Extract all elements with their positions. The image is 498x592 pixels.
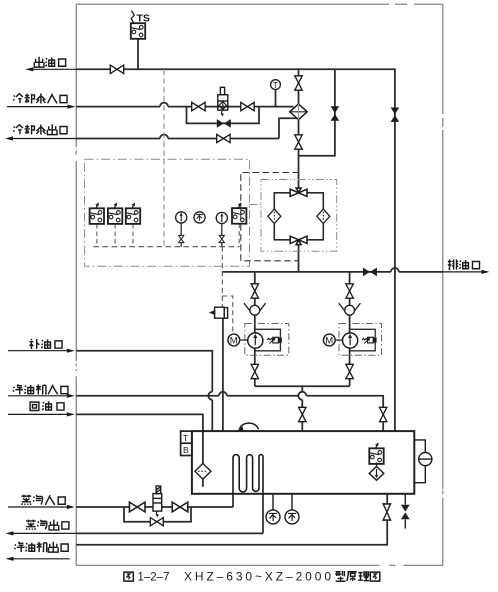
svg-text:T: T xyxy=(273,80,278,90)
svg-text:XHZ–630~XZ–2000: XHZ–630~XZ–2000 xyxy=(184,570,334,584)
svg-text:T: T xyxy=(183,433,188,443)
svg-text:1–2–7: 1–2–7 xyxy=(138,572,170,584)
svg-text:M: M xyxy=(230,335,238,346)
svg-text:M: M xyxy=(325,335,333,346)
svg-text:TS: TS xyxy=(137,13,150,25)
svg-text:B: B xyxy=(183,445,189,455)
